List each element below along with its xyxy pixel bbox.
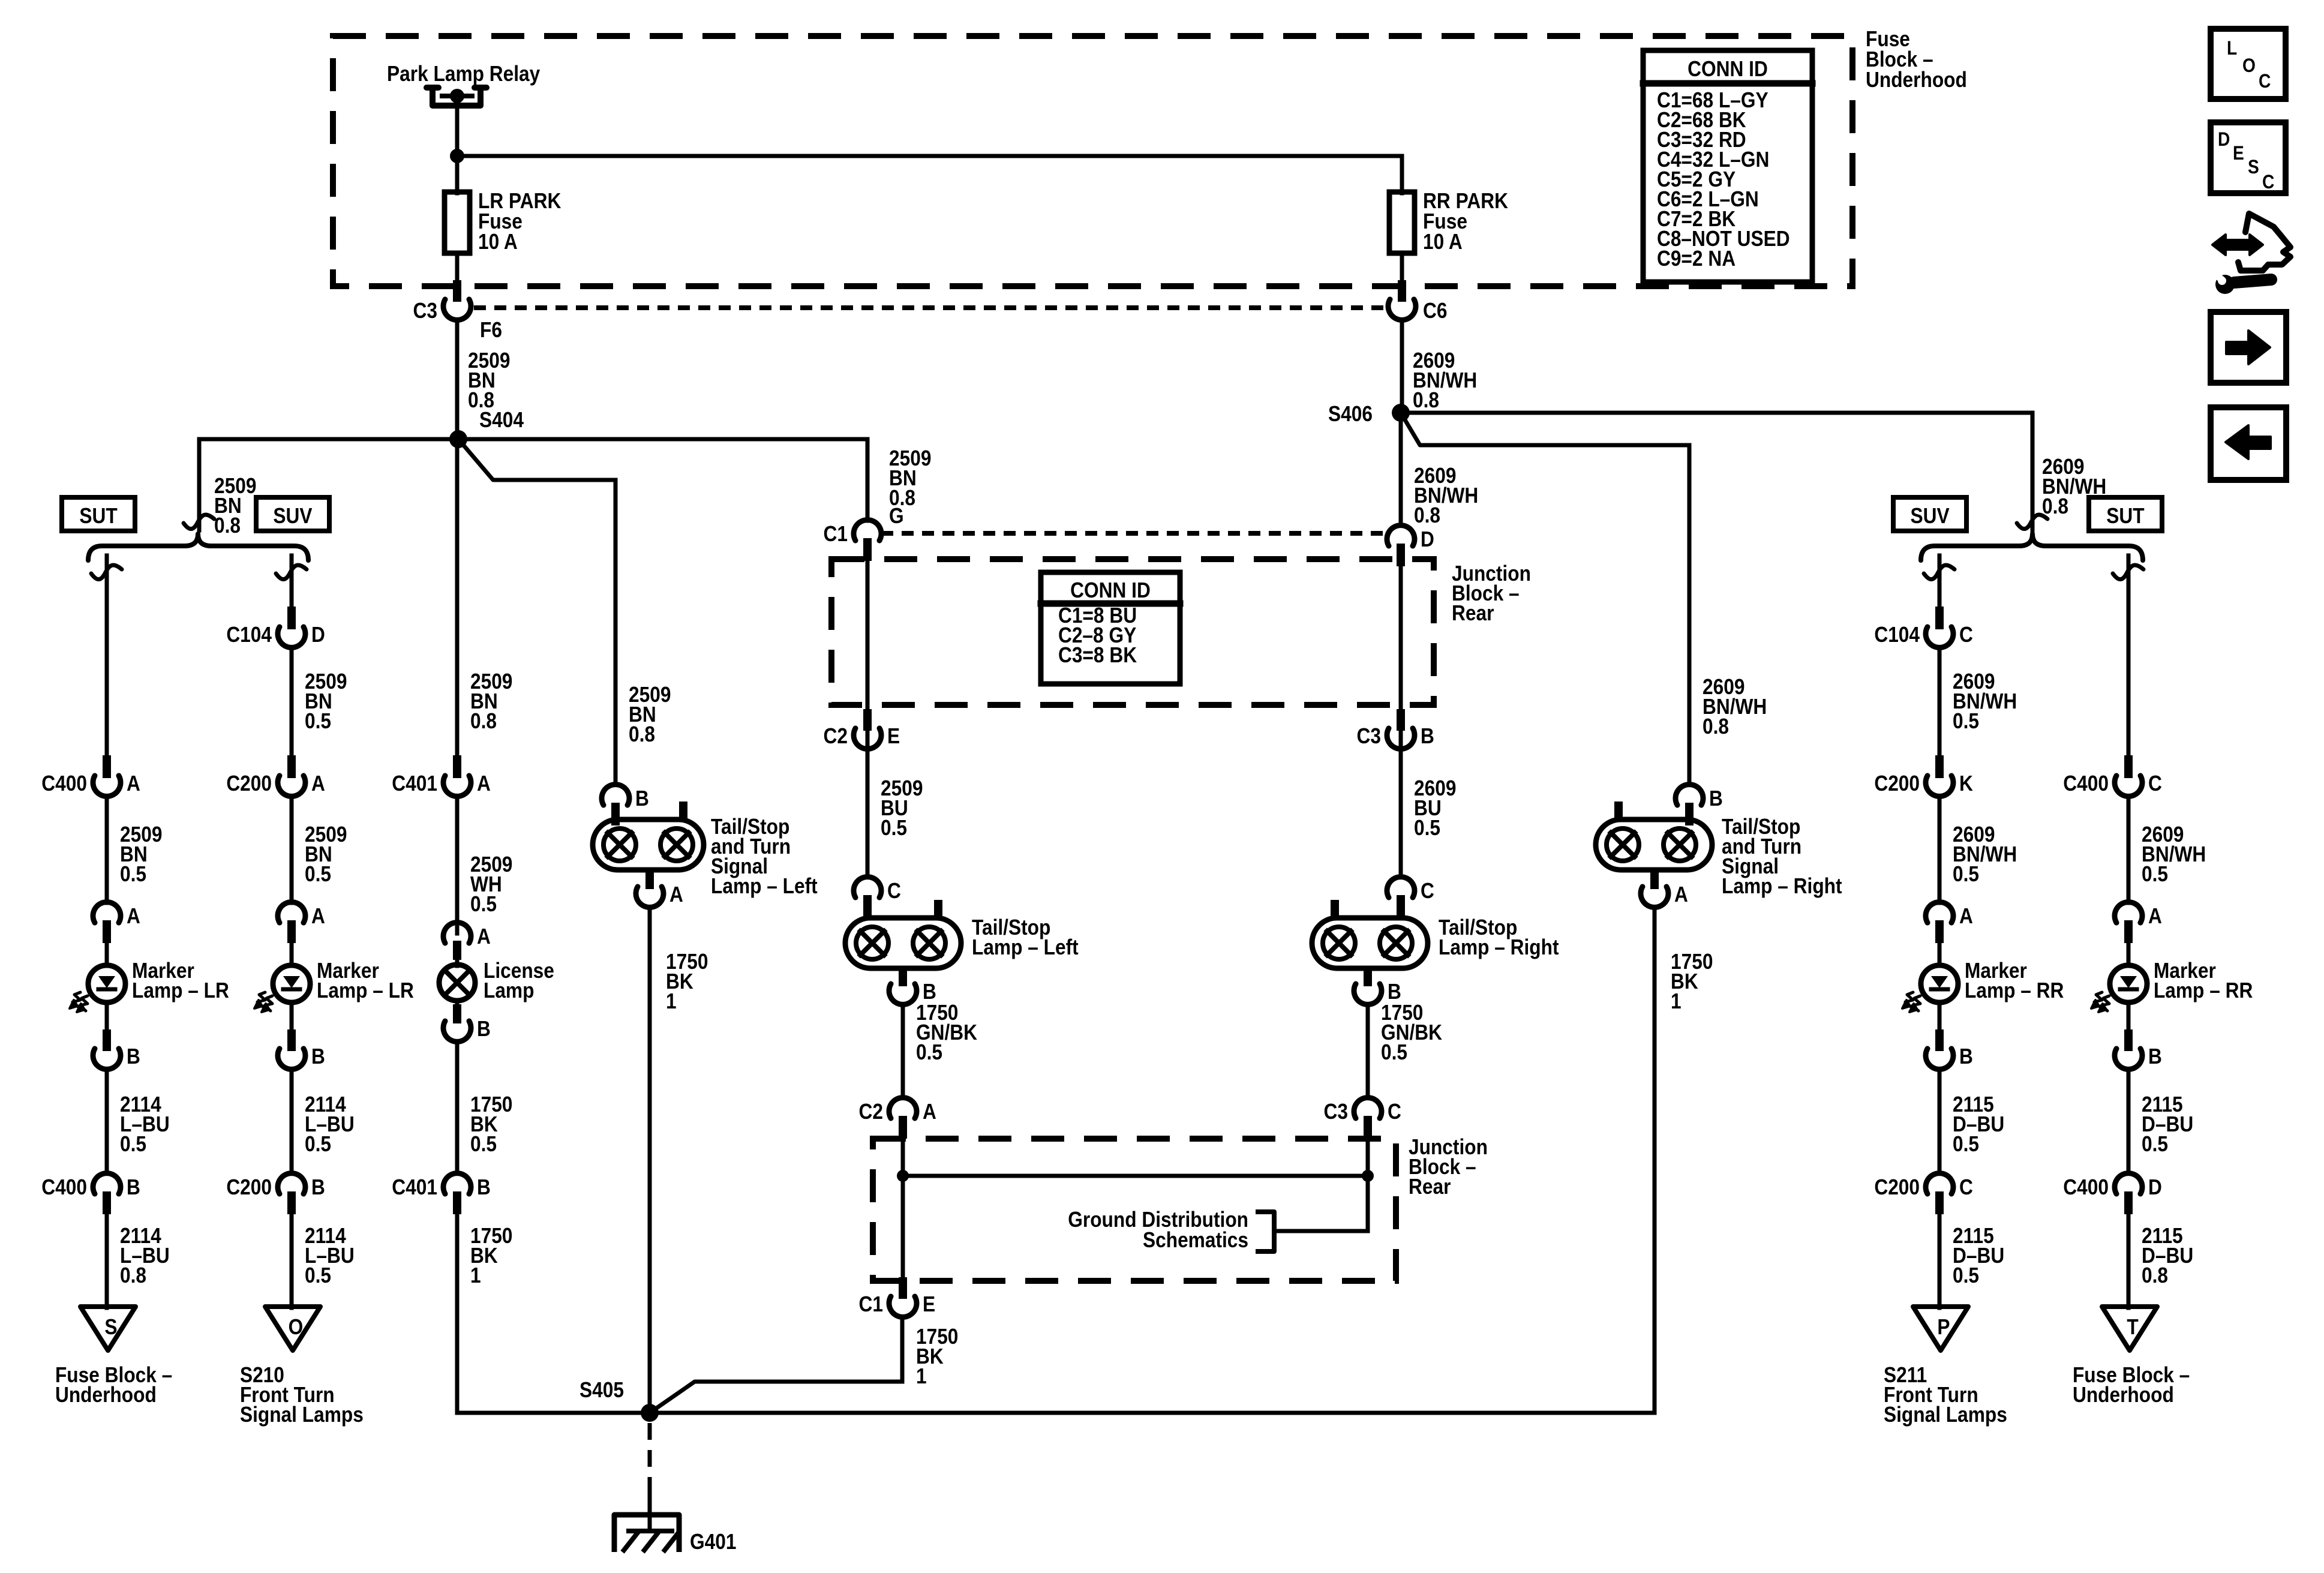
- wire lamp to B (SUV): [290, 1002, 294, 1029]
- CONN ID table (fuse block): [1643, 50, 1812, 282]
- svg-text:0.5: 0.5: [305, 1263, 331, 1287]
- off-page connector T: [2102, 1307, 2157, 1350]
- svg-text:Lamp – RR: Lamp – RR: [1965, 978, 2064, 1002]
- svg-text:O: O: [289, 1315, 304, 1339]
- svg-text:0.5: 0.5: [1381, 1040, 1407, 1064]
- svg-text:B: B: [635, 786, 649, 810]
- svg-text:T: T: [2127, 1315, 2139, 1339]
- svg-text:C: C: [1421, 879, 1434, 903]
- wire SUV-R column down: [1938, 556, 1942, 607]
- svg-text:C: C: [2148, 772, 2162, 795]
- wire break squiggle SUT col: [91, 565, 122, 580]
- fuse block boundary dotted line: [474, 305, 1386, 310]
- svg-text:B: B: [2148, 1044, 2162, 1068]
- wire 1750 BK to C401B: [455, 1042, 460, 1173]
- svg-text:1: 1: [1671, 989, 1682, 1013]
- svg-text:D: D: [311, 623, 325, 647]
- wire 2115 to C200C: [1938, 1070, 1942, 1173]
- lamp Tail/Stop Lamp - Left: [845, 900, 961, 968]
- svg-text:B: B: [1959, 1044, 1973, 1068]
- connector C200 pin B: [287, 1191, 296, 1214]
- svg-text:C200: C200: [226, 1175, 272, 1199]
- svg-text:S406: S406: [1328, 402, 1373, 426]
- svg-text:Underhood: Underhood: [55, 1383, 157, 1407]
- svg-text:0.8: 0.8: [1413, 388, 1439, 412]
- wire SUV column down: [290, 556, 294, 607]
- tag box SUT right: [2089, 497, 2162, 531]
- svg-text:Underhood: Underhood: [2073, 1383, 2174, 1407]
- wire S404 to left brace: [199, 437, 458, 442]
- lamp Tail/Stop and Turn Signal Lamp - Right: [1596, 801, 1712, 870]
- svg-text:0.5: 0.5: [305, 862, 331, 886]
- svg-text:CONN ID: CONN ID: [1688, 57, 1768, 81]
- connector C200 pin K: [1935, 755, 1944, 778]
- svg-text:1: 1: [666, 989, 677, 1013]
- svg-text:Schematics: Schematics: [1143, 1228, 1248, 1252]
- svg-text:Lamp: Lamp: [484, 978, 534, 1002]
- svg-text:B: B: [127, 1175, 140, 1199]
- connector A marker RR (SUT): [2124, 920, 2133, 943]
- svg-text:0.5: 0.5: [305, 1132, 331, 1156]
- connector B tail/stop right: [1364, 966, 1372, 986]
- wire node to LR fuse: [455, 156, 460, 193]
- splice S406: [1392, 404, 1410, 422]
- svg-text:A: A: [311, 904, 325, 928]
- svg-text:C200: C200: [226, 772, 272, 795]
- wire 1750 BK 1 to ground bus: [455, 1213, 460, 1411]
- svg-text:Lamp – Left: Lamp – Left: [711, 874, 818, 898]
- svg-text:Lamp – Right: Lamp – Right: [1722, 874, 1842, 898]
- svg-text:0.5: 0.5: [1953, 709, 1979, 733]
- svg-text:K: K: [1959, 772, 1973, 795]
- splice S404: [449, 430, 467, 448]
- svg-text:E: E: [887, 724, 900, 748]
- svg-text:A: A: [923, 1100, 936, 1124]
- svg-text:E: E: [2233, 143, 2244, 164]
- tag box SUV left: [256, 497, 329, 531]
- wire 2509 BN C400A to lamp: [105, 797, 109, 903]
- icon DESC box: [2211, 122, 2286, 193]
- icon back arrow box: [2211, 407, 2286, 480]
- svg-text:S: S: [2248, 157, 2259, 178]
- svg-text:C3: C3: [1357, 724, 1381, 748]
- connector C400 pin D: [2124, 1191, 2133, 1214]
- connector C1 pin E: [899, 1277, 907, 1299]
- wire RR fuse to C6: [1400, 253, 1404, 282]
- svg-text:D: D: [2218, 129, 2230, 150]
- svg-text:1: 1: [470, 1263, 481, 1287]
- lamp Marker Lamp - RR (SUT): [2091, 942, 2147, 1012]
- svg-text:0.8: 0.8: [470, 709, 497, 733]
- off-page connector O: [265, 1307, 320, 1350]
- svg-text:C3: C3: [413, 299, 437, 323]
- icon vehicle with wrench: [2212, 214, 2290, 294]
- wire 2114 to O triangle: [290, 1213, 294, 1308]
- svg-text:B: B: [127, 1044, 140, 1068]
- connector A tail/turn left: [645, 869, 654, 889]
- wire SUT column down: [105, 556, 109, 756]
- off-page connector P: [1913, 1307, 1968, 1350]
- wire node to RR fuse branch: [457, 154, 1402, 158]
- connector B license lamp: [453, 1004, 461, 1023]
- svg-text:L: L: [2227, 38, 2237, 59]
- wire 2509 WH to license lamp: [455, 797, 460, 933]
- svg-text:A: A: [669, 882, 683, 906]
- lamp Tail/Stop and Turn Signal Lamp - Left: [593, 801, 704, 870]
- ground distribution bus: [903, 1174, 1368, 1178]
- connector C400 pin C: [2124, 755, 2133, 778]
- connector A marker LR (SUT): [103, 920, 111, 943]
- svg-text:SUT: SUT: [2106, 504, 2145, 528]
- svg-text:C104: C104: [1874, 623, 1920, 647]
- svg-text:0.5: 0.5: [1953, 1263, 1979, 1287]
- svg-text:Underhood: Underhood: [1866, 68, 1967, 92]
- svg-text:C401: C401: [392, 1175, 437, 1199]
- node on bus right: [1362, 1170, 1374, 1182]
- svg-text:0.8: 0.8: [120, 1263, 146, 1287]
- lamp Marker Lamp - LR (SUV): [254, 942, 310, 1012]
- junction block rear dashed box (lower): [873, 1139, 1396, 1281]
- wire lamp to B (license): [455, 1001, 460, 1008]
- svg-text:C: C: [1959, 623, 1973, 647]
- svg-text:C9=2 NA: C9=2 NA: [1657, 247, 1736, 271]
- svg-text:C6: C6: [1423, 299, 1447, 323]
- wire S406 down to D: [1399, 413, 1403, 521]
- wire 2509 BN C200A to lamp: [290, 797, 294, 903]
- junction block rear dashed box (upper): [831, 559, 1434, 705]
- svg-text:O: O: [2242, 55, 2256, 76]
- tag box SUV right: [1893, 497, 1966, 531]
- svg-text:C104: C104: [226, 623, 272, 647]
- svg-text:Lamp – Right: Lamp – Right: [1439, 935, 1559, 959]
- svg-text:A: A: [1674, 882, 1688, 906]
- connector C200 pin C: [1935, 1191, 1944, 1214]
- connector C tail/stop right: [1397, 895, 1405, 918]
- wire S404 to C1-G: [458, 437, 867, 442]
- wire break squiggle left: [184, 515, 214, 529]
- node on bus left: [897, 1170, 909, 1182]
- wire 1750 GN/BK left: [901, 1005, 905, 1098]
- svg-text:Rear: Rear: [1452, 601, 1494, 625]
- svg-text:B: B: [477, 1175, 491, 1199]
- svg-text:B: B: [1709, 786, 1723, 810]
- wire 2509 BU C2E to lamp: [866, 749, 870, 877]
- connector B marker LR (SUT): [103, 1029, 111, 1051]
- wire 1750 BK 1 (tail/turn right) to ground bus: [1653, 908, 1657, 1411]
- connector C tail/stop left: [863, 895, 872, 918]
- wire 2609 BU C3B to lamp: [1399, 749, 1403, 877]
- svg-text:0.8: 0.8: [1703, 715, 1729, 739]
- connector A tail/turn right: [1650, 869, 1659, 889]
- svg-text:0.5: 0.5: [470, 892, 497, 916]
- connector C1 pin G: [863, 538, 872, 561]
- connector B marker RR (SUV): [1935, 1029, 1944, 1051]
- svg-text:0.8: 0.8: [629, 722, 655, 746]
- ground G401 symbol: [614, 1489, 679, 1552]
- connector B marker LR (SUV): [287, 1029, 296, 1051]
- fuse F LR PARK 10A: [445, 192, 470, 253]
- fuse block underhood dashed box: [333, 36, 1852, 286]
- fuse F RR PARK 10A: [1389, 192, 1415, 253]
- wire break squiggle SUV-R: [1924, 565, 1954, 580]
- connector B tail/turn left: [611, 803, 620, 825]
- svg-text:0.5: 0.5: [470, 1132, 497, 1156]
- wire break squiggle right: [2017, 515, 2047, 529]
- connector C3 pin F6: [453, 280, 461, 302]
- svg-text:Lamp – LR: Lamp – LR: [317, 978, 414, 1002]
- CONN ID table (junction block): [1041, 572, 1180, 684]
- wire lamp to B (SUT-R): [2127, 1002, 2131, 1029]
- connector D (junction block): [1397, 544, 1405, 566]
- wire 2115 to C400D: [2127, 1070, 2131, 1173]
- svg-text:D: D: [1421, 527, 1434, 551]
- connector A marker LR (SUV): [287, 920, 296, 943]
- svg-text:C: C: [2259, 71, 2271, 92]
- svg-text:G401: G401: [690, 1530, 736, 1554]
- connector B marker RR (SUT): [2124, 1029, 2133, 1051]
- svg-text:B: B: [311, 1044, 325, 1068]
- svg-text:0.8: 0.8: [1414, 503, 1440, 527]
- connector C401 pin B: [453, 1191, 461, 1214]
- connector A license lamp: [453, 941, 461, 960]
- wire 2114 to C200B: [290, 1070, 294, 1173]
- wire C3C inside block: [1366, 1134, 1370, 1230]
- svg-text:C400: C400: [2063, 1175, 2109, 1199]
- lamp Marker Lamp - LR (SUT): [70, 942, 125, 1012]
- off-page connector S: [80, 1307, 136, 1350]
- svg-text:0.5: 0.5: [2142, 862, 2168, 886]
- wire 2509 BN C3 to S404: [455, 320, 460, 439]
- svg-text:S: S: [104, 1315, 117, 1339]
- svg-text:Signal Lamps: Signal Lamps: [240, 1403, 364, 1427]
- svg-text:SUV: SUV: [273, 504, 312, 528]
- svg-text:0.8: 0.8: [2042, 494, 2068, 518]
- svg-text:S404: S404: [479, 408, 524, 432]
- svg-text:SUT: SUT: [79, 504, 118, 528]
- svg-text:Park Lamp Relay: Park Lamp Relay: [387, 62, 540, 86]
- svg-text:0.8: 0.8: [214, 514, 241, 538]
- svg-text:C1: C1: [824, 522, 848, 546]
- svg-text:C: C: [1959, 1175, 1973, 1199]
- connector C400 pin B: [103, 1191, 111, 1214]
- wire RR branch down to RR fuse: [1400, 156, 1404, 193]
- svg-text:Rear: Rear: [1409, 1175, 1451, 1199]
- svg-text:10 A: 10 A: [1423, 230, 1463, 254]
- wire 1750 GN/BK right: [1366, 1005, 1370, 1098]
- wire 2609 C200K to lamp: [1938, 797, 1942, 903]
- svg-text:0.5: 0.5: [916, 1040, 942, 1064]
- svg-text:A: A: [477, 772, 491, 795]
- svg-text:P: P: [1937, 1315, 1950, 1339]
- wire S405 diagonal to C1-E: [650, 1317, 902, 1413]
- wire 2114 to C400B: [105, 1070, 109, 1173]
- svg-text:C2: C2: [858, 1100, 882, 1124]
- relay K Park Lamp Relay symbol: [427, 88, 487, 106]
- connector C3 pin C (lower block): [1364, 1116, 1372, 1139]
- svg-text:0.8: 0.8: [2142, 1263, 2168, 1287]
- svg-text:C200: C200: [1874, 1175, 1920, 1199]
- wire relay to node: [455, 96, 460, 156]
- svg-text:S405: S405: [580, 1378, 624, 1402]
- wire D through junction block: [1399, 560, 1403, 757]
- svg-text:C: C: [1388, 1100, 1401, 1124]
- svg-text:10 A: 10 A: [478, 230, 518, 254]
- wire 2115 to P triangle: [1938, 1213, 1942, 1308]
- wire lamp to B (SUT): [105, 1002, 109, 1029]
- svg-text:SUV: SUV: [1910, 504, 1949, 528]
- svg-text:A: A: [311, 772, 325, 795]
- svg-text:0.5: 0.5: [120, 1132, 146, 1156]
- connector B tail/turn right: [1685, 803, 1694, 825]
- svg-text:0.5: 0.5: [1953, 862, 1979, 886]
- brace right: [1921, 534, 2143, 560]
- connector C104 pin D: [287, 607, 296, 629]
- svg-text:C3: C3: [1324, 1100, 1348, 1124]
- wire S404 diagonal to left tail/turn lamp: [458, 439, 615, 785]
- ground distribution bracket: [1256, 1212, 1368, 1251]
- svg-text:D: D: [2148, 1175, 2162, 1199]
- tag box SUT left: [62, 497, 135, 531]
- svg-text:Lamp – LR: Lamp – LR: [132, 978, 229, 1002]
- svg-text:F6: F6: [480, 318, 502, 342]
- svg-text:C: C: [2262, 172, 2274, 193]
- connector C3 pin B: [1397, 709, 1405, 731]
- node under relay: [450, 149, 464, 163]
- wire 2114 to S triangle: [105, 1213, 109, 1308]
- connector B tail/stop left: [899, 966, 907, 986]
- connector C400 pin A: [103, 755, 111, 778]
- svg-text:0.5: 0.5: [1953, 1132, 1979, 1156]
- svg-text:0.5: 0.5: [2142, 1132, 2168, 1156]
- brace left: [88, 534, 308, 560]
- svg-text:B: B: [1421, 724, 1434, 748]
- svg-text:0.5: 0.5: [1414, 816, 1440, 840]
- svg-text:C1: C1: [858, 1292, 882, 1316]
- wire S406 diagonal to right tail/turn lamp: [1401, 413, 1689, 785]
- wire 2509 BN C104 to C200: [290, 648, 294, 756]
- wire 2609 C400C to lamp: [2127, 797, 2131, 903]
- svg-text:C400: C400: [41, 1175, 87, 1199]
- svg-text:1: 1: [916, 1364, 927, 1388]
- junction block boundary dotted line: [881, 531, 1387, 536]
- svg-text:B: B: [477, 1017, 491, 1041]
- connector C401 pin A: [453, 755, 461, 778]
- svg-text:Lamp – RR: Lamp – RR: [2154, 978, 2253, 1002]
- wire S405 to ground dashed: [648, 1423, 652, 1495]
- wire break squiggle SUV col: [276, 565, 307, 580]
- svg-text:C: C: [887, 879, 901, 903]
- connector C200 pin A: [287, 755, 296, 778]
- connector C2 pin E: [863, 709, 872, 731]
- wire 2609 C104 to C200: [1938, 648, 1942, 756]
- icon LOC box: [2211, 29, 2286, 99]
- svg-text:0.5: 0.5: [120, 862, 146, 886]
- svg-text:A: A: [127, 904, 140, 928]
- ground bus wire: [650, 1411, 1654, 1415]
- wire C2A inside block: [901, 1134, 905, 1284]
- wire lamp to B (SUV-R): [1938, 1002, 1942, 1029]
- wire 2609 BN/WH C6 to S406: [1400, 320, 1404, 413]
- svg-text:A: A: [127, 772, 140, 795]
- svg-text:0.5: 0.5: [305, 709, 331, 733]
- svg-text:C200: C200: [1874, 772, 1920, 795]
- lamp License Lamp: [439, 957, 475, 1001]
- svg-text:Lamp – Left: Lamp – Left: [972, 935, 1079, 959]
- wire S404 down to C401: [455, 439, 460, 756]
- connector C2 pin A (lower block): [899, 1116, 907, 1139]
- icon forward arrow box: [2211, 312, 2286, 383]
- svg-text:C3=8 BK: C3=8 BK: [1058, 643, 1137, 667]
- svg-text:A: A: [1959, 904, 1973, 928]
- lamp Tail/Stop Lamp - Right: [1312, 900, 1428, 968]
- svg-text:CONN ID: CONN ID: [1070, 578, 1151, 602]
- wire C1G through junction block: [866, 556, 870, 757]
- connector C6: [1398, 280, 1406, 302]
- svg-text:Signal Lamps: Signal Lamps: [1884, 1403, 2007, 1427]
- wire 1750 BK 1 (tail/turn left) to S405: [648, 908, 652, 1413]
- lamp Marker Lamp - RR (SUV): [1902, 942, 1958, 1012]
- wire S406 to right brace: [1401, 411, 2032, 415]
- wire 2115 to T triangle: [2127, 1213, 2131, 1308]
- svg-text:A: A: [2148, 904, 2162, 928]
- wire LR fuse to C3: [455, 253, 460, 282]
- svg-text:G: G: [889, 504, 904, 528]
- svg-text:A: A: [477, 924, 491, 948]
- connector C104 pin C: [1935, 607, 1944, 629]
- connector A marker RR (SUV): [1935, 920, 1944, 943]
- svg-text:B: B: [311, 1175, 325, 1199]
- splice S405: [641, 1404, 659, 1422]
- svg-text:0.5: 0.5: [881, 816, 907, 840]
- svg-text:C400: C400: [41, 772, 87, 795]
- wire SUT-R column down: [2127, 556, 2131, 756]
- wire break squiggle SUT-R: [2113, 565, 2143, 580]
- svg-text:C2: C2: [824, 724, 848, 748]
- svg-text:C401: C401: [392, 772, 437, 795]
- svg-text:C400: C400: [2063, 772, 2109, 795]
- svg-text:E: E: [923, 1292, 935, 1316]
